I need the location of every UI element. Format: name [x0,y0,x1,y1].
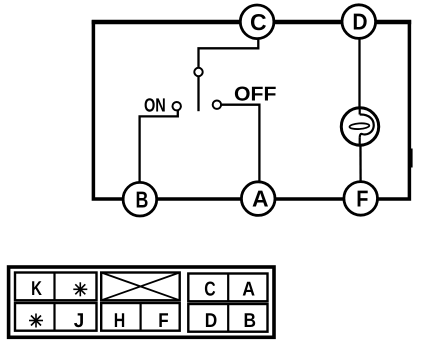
switch blade [197,76,199,111]
node F [344,182,378,216]
left block top divider [53,273,55,301]
node A [241,182,275,216]
right block bottom divider [227,304,229,332]
wire ON contact to node B [140,110,178,183]
ON contact terminal [173,102,181,110]
switch pivot terminal [194,68,202,76]
svg-text:B: B [136,186,149,212]
connector table middle crossed box (no connection) [101,273,180,301]
svg-text:C: C [204,279,215,301]
svg-text:D: D [205,310,218,332]
svg-text:C: C [250,9,267,35]
connector table right block bottom box (cells D, B) [188,304,267,332]
svg-text:H: H [114,310,126,332]
svg-text:A: A [252,186,269,212]
connector table outer border [9,267,274,337]
wire OFF contact to node A [221,105,259,182]
svg-text:B: B [243,310,256,332]
node C [240,5,274,39]
OFF contact terminal [213,101,221,109]
circuit outer loop wire [93,22,409,199]
svg-text:OFF: OFF [234,83,277,105]
left block bottom divider [53,303,55,331]
connector table middle bottom box (cells H, F) [101,303,180,331]
node D [342,5,376,39]
lamp L1 [341,108,378,145]
connector table right block top box (cells C, A) [188,274,267,302]
wire C to switch pivot [199,37,259,68]
right block top divider [227,274,229,302]
svg-text:F: F [158,310,168,332]
scan tick on right edge [411,149,413,168]
node B [123,182,157,216]
middle bottom divider [140,303,142,331]
connector table left block top box (cells K, star) [15,273,97,301]
wire lamp to node F [359,126,362,181]
svg-text:D: D [352,9,367,35]
svg-text:J: J [74,310,85,332]
svg-text:ON: ON [144,96,166,117]
svg-text:A: A [242,279,255,301]
cell star top [73,282,87,296]
wire top edge thick overlay [92,20,412,25]
wire node D to lamp [358,38,360,127]
cell star bottom [29,314,43,328]
svg-text:F: F [356,186,368,212]
svg-text:K: K [31,278,42,300]
connector table left block bottom box (cells star, J) [15,303,97,331]
